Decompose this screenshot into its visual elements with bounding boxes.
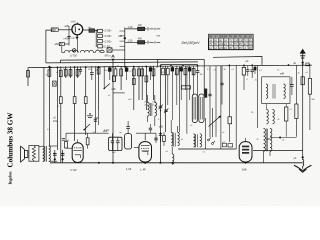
wire v216 — [215, 66, 217, 138]
coil block lower right B — [273, 110, 275, 124]
resistor R2 — [59, 70, 62, 77]
bottom bus dots — [98, 162, 100, 164]
tube V1 grid — [73, 150, 82, 152]
capacitor on v210 — [208, 93, 211, 95]
wire v77 — [77, 66, 79, 78]
output transformer T1 — [43, 146, 45, 162]
contact boxes right — [222, 143, 226, 147]
svg-text:Ingelen: Ingelen — [9, 172, 13, 185]
tube V3 rectifier envelope — [239, 142, 252, 162]
svg-text:+A2: +A2 — [71, 19, 76, 23]
resistor R25 horizontal — [182, 86, 191, 89]
resistor R32 tall — [308, 78, 311, 94]
resistor R26 — [228, 117, 232, 124]
wire v146 — [145, 66, 147, 110]
wire v212 — [211, 108, 213, 137]
trimmer C2 — [67, 36, 71, 38]
mid bus right — [178, 148, 236, 150]
ground socket — [59, 42, 64, 45]
coil L1b — [80, 50, 93, 52]
switch box A2 — [89, 29, 95, 33]
junction dots on chassis bus — [49, 67, 51, 69]
switch contacts right — [208, 139, 210, 141]
field coil zigzag — [32, 146, 35, 162]
resistor R30 — [242, 67, 245, 75]
voltage table frame — [209, 34, 254, 49]
band switch contact row 4 — [98, 45, 103, 48]
switch S3 — [104, 84, 110, 89]
wire v74 low — [74, 104, 76, 142]
resistor R11 deep — [112, 76, 115, 82]
capacitor blob C21 — [180, 67, 183, 71]
coil L2 — [96, 50, 105, 52]
wire v85 low — [85, 104, 87, 136]
capacitor blob C22 — [188, 67, 191, 71]
resistor R31 — [301, 77, 304, 85]
wire v186 — [186, 66, 188, 134]
grid stopper — [134, 147, 139, 149]
oscillator can 2 — [199, 94, 204, 123]
band switch contact row 1 — [98, 29, 103, 32]
svg-text:Columbus 38 GW: Columbus 38 GW — [8, 112, 15, 167]
arrow on chassis left — [50, 67, 53, 69]
scan noise texture — [0, 0, 1, 1]
resistor R6 mid — [73, 97, 76, 104]
wire switch to contacts — [95, 30, 98, 32]
svg-text:a48: a48 — [280, 73, 285, 76]
resistor R18 — [152, 69, 155, 76]
connector arrow 1 — [147, 27, 149, 30]
electrolytic can — [125, 134, 132, 149]
oscillator can 1 — [192, 94, 197, 123]
capacitor C32 — [246, 69, 249, 71]
wire v220 long — [220, 66, 222, 150]
tube V2 grid dashes — [141, 147, 142, 149]
svg-text:a50: a50 — [55, 42, 60, 46]
svg-text:<C 95>: <C 95> — [103, 34, 112, 38]
IFT right coil B — [284, 84, 286, 98]
svg-text:n45: n45 — [118, 35, 123, 38]
wire v74 — [74, 66, 76, 96]
wire crossbar 93 — [113, 92, 125, 94]
grid resistor — [65, 142, 68, 149]
speaker field frame — [29, 146, 39, 162]
coil core circle — [72, 49, 76, 53]
wire antenna feed corner — [46, 30, 51, 63]
wire contacts to right bus — [120, 30, 125, 32]
wire v113 — [112, 60, 114, 163]
antenna input socket — [51, 28, 58, 32]
switch S2 diagonal — [84, 124, 90, 130]
svg-text:C 92: C 92 — [71, 168, 77, 172]
tube V1 EBC3 envelope — [72, 143, 83, 163]
frame outer — [158, 59, 205, 67]
svg-text:1,03: 1,03 — [126, 167, 132, 171]
svg-text:<C 95>: <C 95> — [103, 29, 112, 33]
tube V2 anode — [144, 136, 146, 140]
wire v95 — [94, 66, 96, 133]
resistor R anode — [86, 138, 89, 145]
resistor R20 — [162, 68, 165, 75]
wire v28 — [27, 68, 29, 86]
wire v153 — [153, 66, 155, 100]
svg-text:a05: a05 — [159, 126, 164, 129]
svg-text:LY750: LY750 — [70, 55, 77, 58]
wire v60 — [60, 66, 62, 96]
IFT A wires — [147, 95, 149, 103]
svg-text:1,30: 1,30 — [128, 26, 133, 29]
capacitor blob C20 — [171, 67, 174, 71]
component on bus right — [306, 63, 309, 66]
wire right frame stub — [213, 57, 262, 65]
tube V1 anode lead — [77, 140, 79, 143]
resistor R1 — [48, 70, 51, 77]
svg-text:n48: n48 — [111, 88, 116, 91]
wire v104 switch feed — [103, 66, 105, 88]
svg-text:µF: µF — [293, 62, 296, 65]
resistor R7 — [76, 70, 79, 77]
bus B+ top — [61, 58, 205, 61]
electrolytic cap pair — [54, 150, 56, 163]
switch box X left — [53, 81, 57, 86]
svg-text:1A8: 1A8 — [242, 167, 247, 171]
IF transformer 2 coils — [193, 134, 195, 147]
capacitor small above can — [126, 126, 130, 128]
wire v121 — [120, 66, 122, 90]
connector arrow 2 — [147, 41, 149, 44]
junction 48 — [48, 66, 50, 68]
capacitor C31 — [290, 84, 293, 86]
wire meter branch 2 — [125, 41, 147, 43]
blob C33 — [254, 67, 257, 71]
capacitor C30 — [250, 69, 254, 71]
junction mains — [302, 62, 304, 64]
resistor R21 — [166, 68, 169, 75]
tube V3 top lead — [245, 138, 247, 142]
tube V2 AL4 envelope — [139, 142, 152, 162]
capacitor n05 — [154, 137, 158, 139]
trimmer T1 left — [159, 105, 162, 107]
IF transformer A core — [149, 103, 151, 116]
wire v204 — [203, 59, 205, 95]
tube V1 cathode — [75, 155, 81, 158]
wire v85 — [85, 66, 87, 96]
resistor R17 — [145, 76, 148, 82]
IF transformer A coil 2 — [155, 103, 157, 117]
table shading — [209, 34, 254, 38]
wire v70 — [70, 66, 72, 78]
resistor tall right — [285, 107, 288, 121]
speaker — [21, 146, 25, 162]
junction node osc — [124, 37, 126, 39]
wire v179 — [178, 66, 180, 132]
svg-text:1M: 1M — [88, 69, 91, 71]
wire v210 — [209, 66, 211, 138]
wire transformer to caps — [49, 145, 58, 147]
IFT right coil A — [266, 84, 268, 98]
choke squiggle 1 — [264, 129, 266, 152]
resistor R4 — [64, 70, 67, 77]
resistor R15 — [138, 69, 141, 76]
IF transformer left coils — [171, 132, 173, 145]
svg-text:SPL n: SPL n — [105, 55, 112, 58]
bus bottom — [50, 162, 303, 164]
resistor R8 mid — [84, 97, 87, 104]
tube V2 cathode — [142, 152, 148, 156]
wire antenna to lamp — [58, 29, 72, 31]
electrolytic block 8uF — [109, 137, 122, 150]
dial lamp circle — [72, 24, 83, 35]
lamp filament — [74, 26, 76, 32]
svg-text:n43: n43 — [64, 37, 69, 41]
switch box row — [107, 48, 112, 52]
wire v124 osc — [124, 56, 126, 66]
wire v44 — [43, 67, 45, 145]
svg-text:Def (GE)mV: Def (GE)mV — [182, 41, 201, 45]
wire L02 coupling — [66, 132, 109, 134]
band switch contact row 2 — [98, 34, 103, 37]
resistor R13 — [132, 69, 135, 76]
trimmer under lamp — [76, 35, 78, 36]
choke dark bar — [205, 89, 208, 98]
capacitor C80 — [79, 69, 82, 71]
capacitor C91 — [90, 72, 94, 74]
resistor R23 — [184, 68, 187, 75]
capacitor blob C12 — [149, 67, 152, 71]
resistor R5 — [69, 70, 72, 77]
tuning arrow — [209, 116, 221, 127]
wire extensions hang row — [167, 80, 169, 105]
junction right — [279, 137, 281, 139]
coil L1a — [65, 50, 79, 52]
junction ground node — [302, 156, 304, 158]
table grid — [209, 37, 254, 39]
capacitor C23 — [196, 70, 200, 72]
ground symbol — [302, 157, 304, 160]
wire v98 — [98, 66, 100, 110]
resistor R12 — [120, 69, 123, 76]
wire coil connect — [170, 120, 172, 132]
capacitor on v222 — [220, 82, 223, 84]
svg-text:µF: µF — [246, 60, 249, 63]
wire v133 — [133, 66, 135, 110]
arrow up on v113 — [112, 55, 115, 57]
wire B+ right horizontal — [253, 149, 303, 151]
wire bottom antenna — [65, 43, 70, 45]
resistor R24 — [192, 68, 195, 75]
tube V2 bottom dot — [144, 162, 146, 164]
wire v302 — [302, 63, 304, 158]
wire v205 — [205, 118, 207, 149]
wire choke bottom — [263, 151, 265, 163]
bus step — [60, 60, 62, 63]
svg-text:<C 90>: <C 90> — [103, 39, 112, 43]
cap res pair left edge — [160, 132, 162, 142]
resistor meter 2 — [138, 41, 145, 44]
tube V3 bottom dot — [245, 162, 247, 164]
svg-text:30h: 30h — [267, 138, 272, 141]
bus chassis — [28, 65, 312, 67]
trimmer cap mid — [87, 115, 93, 117]
wire v60 low — [60, 104, 62, 163]
wire v65 — [65, 66, 67, 78]
IF transformer A coil 1 — [148, 103, 150, 117]
resistor R9 — [97, 68, 100, 75]
capacitor under IFT A — [149, 127, 152, 129]
band switch contact row 3 — [98, 39, 103, 42]
svg-text:1,30: 1,30 — [128, 39, 133, 42]
wire v236 — [235, 65, 237, 149]
lamp stub top — [76, 23, 78, 25]
capacitor blob C10 — [108, 68, 111, 72]
wire v57 — [56, 67, 58, 150]
svg-text:L 4F: L 4F — [141, 167, 147, 171]
svg-text:Uhr: Uhr — [88, 26, 92, 29]
wire contact bus left — [95, 30, 97, 48]
wire v139 — [138, 66, 140, 100]
wire anode to bus — [144, 133, 146, 136]
wire grid in — [66, 147, 72, 149]
wire meter branch 1 — [125, 28, 147, 30]
capacitor blob C11 — [125, 68, 128, 72]
resistor R10 — [114, 69, 117, 76]
resistor R22 — [175, 68, 178, 75]
wire v257 — [257, 65, 259, 128]
wire v165 — [165, 66, 167, 132]
capacitor n4 — [62, 138, 65, 140]
trimmer T2 left — [164, 109, 167, 111]
capacitor C1 node — [68, 26, 70, 46]
resistor R14 deep — [132, 79, 135, 85]
resistor 800 — [295, 104, 298, 119]
single coil below — [172, 154, 174, 164]
resistor R3 mid — [59, 97, 62, 104]
wire v48 — [48, 67, 50, 146]
svg-text:a30: a30 — [65, 24, 70, 28]
wire coils — [76, 35, 78, 53]
svg-text:1M: 1M — [200, 74, 203, 76]
wire v142 — [141, 66, 143, 100]
capacitor on v95 — [94, 119, 97, 121]
wire transformer top — [39, 146, 43, 148]
resistor R28 — [27, 71, 30, 78]
frame inner — [161, 65, 198, 67]
resistor R16 — [141, 69, 144, 76]
IF transformer right frame — [262, 76, 290, 78]
wire v222 — [221, 66, 223, 105]
wire contact bus right — [124, 28, 126, 57]
wire v310 — [309, 64, 311, 79]
bus secondary — [46, 62, 198, 63]
wire v98 extend — [98, 110, 100, 125]
wire v157 down — [155, 133, 157, 143]
wire v160 — [160, 65, 162, 163]
choke squiggle 2 — [270, 129, 272, 152]
resistor meter 1 — [138, 27, 145, 30]
tube V3 plates — [242, 146, 249, 148]
svg-text:1,02: 1,02 — [104, 129, 109, 132]
mains plug symbol — [302, 50, 304, 63]
coil block lower right A — [267, 110, 269, 124]
wire lamp to switch — [83, 29, 89, 31]
